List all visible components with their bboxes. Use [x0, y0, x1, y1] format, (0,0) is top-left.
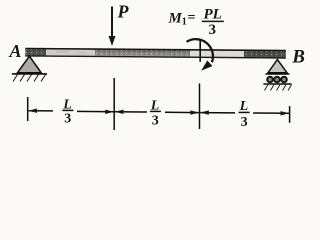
load P arrow	[111, 7, 113, 38]
moment arc arrow	[187, 39, 213, 62]
beam top edge	[25, 49, 285, 51]
roller circles	[267, 77, 273, 83]
dimension tick 2 (under P)	[113, 78, 115, 130]
svg-text:3: 3	[209, 22, 217, 38]
pin support at A: triangle	[17, 56, 41, 73]
pin support ground line	[12, 73, 47, 75]
dimension segment 3 right arrow	[253, 112, 289, 114]
faint scan smudges on beam light section	[56, 50, 70, 53]
dimension segment 1 left arrow	[29, 110, 53, 112]
beam AB	[25, 48, 286, 59]
dimension tick 3 (under M1)	[199, 83, 201, 129]
svg-text:3: 3	[152, 113, 159, 128]
dimension segment 1 right arrow	[77, 110, 114, 112]
svg-text:PL: PL	[204, 7, 222, 23]
dimension tick 1 (at A)	[27, 97, 29, 121]
dimension segment 2 right arrow	[165, 111, 199, 113]
svg-text:3: 3	[241, 115, 248, 130]
beam shading dark right end	[244, 50, 286, 58]
svg-text:A: A	[9, 41, 22, 61]
svg-text:B: B	[291, 47, 305, 68]
dimension tick 4 (at B)	[289, 106, 291, 123]
svg-text:3: 3	[64, 112, 71, 127]
roller support at B: triangle	[268, 60, 287, 73]
dimension segment 3 left arrow	[200, 112, 235, 114]
moment application tick through beam	[199, 40, 201, 62]
beam shading mid dark section	[95, 49, 190, 57]
roller ground line	[263, 83, 291, 85]
moment M1 label: fraction bar	[202, 20, 224, 22]
pin support hatching	[13, 75, 46, 82]
svg-text:1: 1	[182, 17, 187, 28]
svg-text:P: P	[117, 2, 130, 22]
beam shading light section	[46, 49, 95, 57]
roller ground hatching	[265, 85, 292, 91]
svg-text:=: =	[188, 11, 196, 26]
beam bottom edge	[25, 56, 285, 58]
beam shading dark left end	[25, 48, 46, 56]
svg-text:M: M	[168, 11, 183, 27]
dimension segment 2 left arrow	[115, 111, 147, 113]
roller support plate line	[266, 73, 290, 75]
